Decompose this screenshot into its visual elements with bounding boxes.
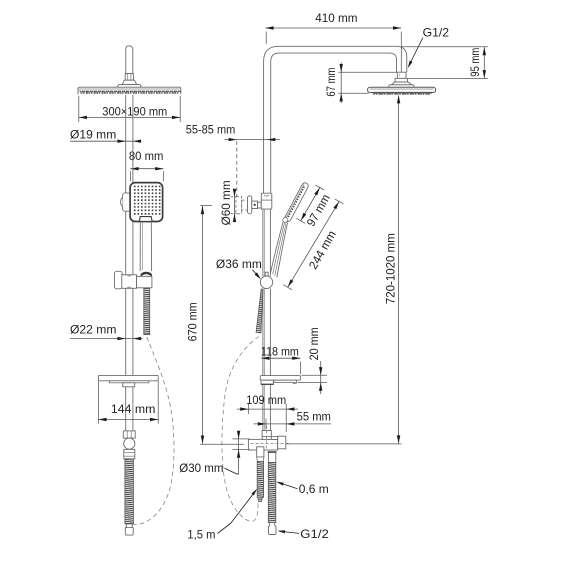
svg-text:Ø22 mm: Ø22 mm — [70, 322, 117, 336]
wire: hose outlet right 0.6m (side view) — [268, 452, 277, 535]
dimension 670 mm — [185, 205, 244, 444]
dimension 67 mm — [324, 63, 397, 104]
svg-text:Ø19 mm: Ø19 mm — [70, 128, 116, 142]
wire: hand shower hose slack loop (front view) — [133, 337, 174, 524]
label G1/2 bottom with leader — [278, 527, 330, 541]
hand shower head (front view) — [130, 183, 163, 222]
label 1,5 m with leader — [187, 489, 257, 542]
dimension 95 mm — [402, 47, 488, 79]
svg-text:80 mm: 80 mm — [129, 149, 164, 163]
wire: shower pipe with top arm (side view) — [264, 46, 407, 193]
svg-text:67 mm: 67 mm — [324, 68, 338, 97]
dimension Ø30 mm with leader — [179, 431, 249, 476]
svg-text:720-1020 mm: 720-1020 mm — [384, 233, 398, 304]
svg-text:Ø36 mm: Ø36 mm — [216, 257, 262, 271]
diverter valve (front view) — [123, 431, 135, 459]
label G1/2 top connector — [408, 25, 450, 68]
svg-text:G1/2: G1/2 — [300, 527, 329, 541]
svg-text:109 mm: 109 mm — [246, 393, 286, 407]
overhead shower connector G1/2 (side view) — [389, 72, 414, 87]
svg-text:0,6 m: 0,6 m — [299, 482, 329, 496]
dimension 300×190 mm — [79, 96, 180, 122]
hose end connector (front view) — [125, 524, 133, 535]
svg-text:Ø30 mm: Ø30 mm — [179, 461, 223, 475]
svg-text:244 mm: 244 mm — [306, 228, 339, 271]
hand shower handle (side view) — [271, 217, 289, 278]
label Ø36 mm with leader — [216, 257, 262, 279]
svg-text:118 mm: 118 mm — [261, 344, 299, 358]
dimension Ø22 mm — [70, 322, 142, 340]
T-connector inlet assembly (side view) — [248, 426, 290, 451]
dimension Ø60 mm — [219, 180, 237, 225]
svg-text:55 mm: 55 mm — [297, 409, 331, 423]
dimension 410 mm — [265, 11, 401, 77]
svg-text:55-85 mm: 55-85 mm — [186, 123, 236, 137]
wire: hose lower section (front view) — [125, 459, 133, 524]
hand shower head (side view) — [284, 182, 310, 223]
dimension 20 mm — [298, 327, 328, 394]
cone escutcheon above rain head (front) — [118, 80, 141, 88]
dimension Ø19 mm — [70, 128, 141, 143]
wall bracket (side view) — [236, 193, 272, 214]
svg-text:1,5 m: 1,5 m — [187, 528, 215, 542]
rain shower head 300x190 (front view) — [78, 87, 181, 94]
dimension 118 mm — [261, 344, 301, 374]
overhead shower head (side view) — [368, 87, 436, 95]
svg-text:G1/2: G1/2 — [423, 25, 450, 39]
soap shelf (front view) — [98, 375, 158, 386]
svg-text:95 mm: 95 mm — [468, 48, 482, 77]
svg-text:410 mm: 410 mm — [315, 11, 357, 25]
hand shower handle (front view) — [140, 222, 152, 278]
wire: hand shower hose upper section (front view) — [144, 288, 150, 334]
wire: hose outlet left 1.5m (side view) — [257, 447, 264, 502]
wire: shower column pole (front view) — [126, 95, 133, 431]
wire: hose slack loop (side view) — [222, 337, 259, 522]
wire: lower column pipe (side view) — [263, 209, 271, 430]
dimension 97 mm — [297, 185, 333, 229]
dimension 55 mm — [254, 409, 331, 429]
slider knob on pole (front view) — [121, 193, 131, 211]
svg-text:Ø60 mm: Ø60 mm — [219, 180, 233, 225]
dimension 80 mm — [129, 149, 164, 181]
dimension 720-1020 mm — [286, 95, 401, 444]
dimension 109 mm — [237, 393, 298, 432]
svg-text:300×190 mm: 300×190 mm — [102, 104, 167, 118]
svg-text:97 mm: 97 mm — [304, 192, 333, 229]
holder ball joint Ø36 (side view) — [260, 272, 272, 288]
soap shelf (side view) — [260, 376, 300, 385]
hand shower holder bracket (front view) — [114, 271, 152, 289]
wire: top supply pipe (front view) — [126, 46, 133, 74]
dimension 144 mm — [98, 381, 158, 423]
fitting nut above rain head (front) — [125, 74, 133, 81]
svg-text:144 mm: 144 mm — [111, 402, 155, 416]
svg-text:20 mm: 20 mm — [307, 327, 321, 360]
dimension 244 mm — [283, 199, 343, 290]
svg-text:670 mm: 670 mm — [185, 302, 199, 341]
dimension 55-85 mm — [186, 123, 280, 197]
wire: hand shower hose upper (side view) — [256, 289, 263, 333]
label 0,6 m with leader — [276, 482, 329, 497]
